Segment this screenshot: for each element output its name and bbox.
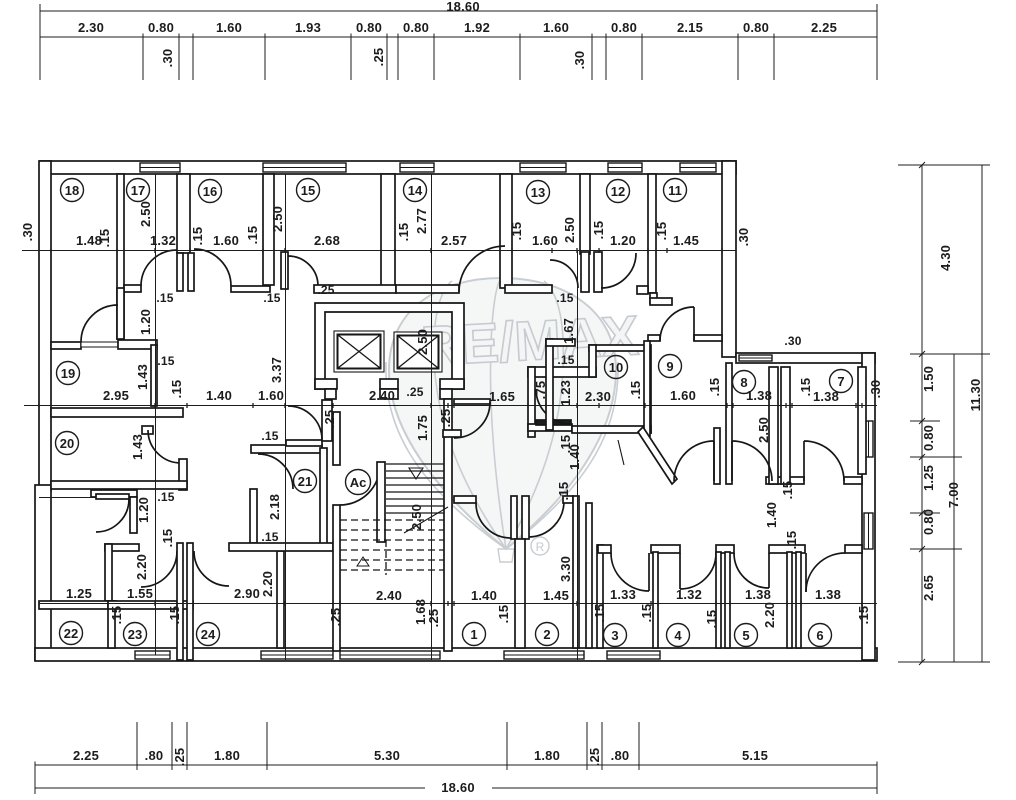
door corridor-1 arc xyxy=(674,441,714,481)
svg-text:1.60: 1.60 xyxy=(213,233,239,248)
svg-text:.80: .80 xyxy=(611,748,630,763)
svg-text:.15: .15 xyxy=(780,481,795,500)
bottom chain extension lines xyxy=(137,722,639,770)
svg-text:13: 13 xyxy=(531,185,545,200)
svg-text:2.77: 2.77 xyxy=(414,208,429,234)
stair up arrow xyxy=(357,557,369,566)
wall room5-6 double xyxy=(787,552,792,648)
balloon gores xyxy=(434,281,506,549)
svg-text:.15: .15 xyxy=(97,229,112,248)
svg-text:1.67: 1.67 xyxy=(561,318,576,344)
diagonal wall hall xyxy=(638,427,677,484)
window W9 right facade xyxy=(864,513,873,549)
svg-text:1.93: 1.93 xyxy=(295,20,321,35)
bottom dim chain line xyxy=(35,764,877,766)
svg-text:.30: .30 xyxy=(20,223,35,242)
svg-text:15: 15 xyxy=(301,183,315,198)
hall small labels xyxy=(138,291,281,544)
exterior wall right upper-section xyxy=(722,161,736,357)
svg-text:2.57: 2.57 xyxy=(441,233,467,248)
svg-text:0.80: 0.80 xyxy=(356,20,382,35)
interior vertical grid x155 xyxy=(155,174,157,655)
svg-text:3.37: 3.37 xyxy=(269,357,284,383)
svg-text:1.40: 1.40 xyxy=(764,502,779,528)
entrance sill xyxy=(340,651,440,659)
svg-text:2.95: 2.95 xyxy=(103,388,129,403)
door corridor-2 arc xyxy=(732,441,772,481)
room2 east wall double xyxy=(573,496,579,648)
elevator shaft 2 X xyxy=(398,336,438,368)
svg-text:.15: .15 xyxy=(109,606,124,625)
svg-text:5.15: 5.15 xyxy=(742,748,768,763)
svg-text:1.38: 1.38 xyxy=(746,388,772,403)
svg-text:.15: .15 xyxy=(169,380,184,399)
svg-text:.15: .15 xyxy=(261,530,278,544)
top overall dim line 18.60 xyxy=(40,10,877,12)
svg-text:2.50: 2.50 xyxy=(415,329,430,355)
room9 west wall xyxy=(644,341,650,436)
window W8 right facade xyxy=(864,421,873,457)
svg-text:.15: .15 xyxy=(707,378,722,397)
svg-text:1.38: 1.38 xyxy=(815,587,841,602)
bottom chain labels xyxy=(73,748,768,795)
door room22-zone arc xyxy=(96,499,129,532)
elevator block outer wall xyxy=(315,303,464,389)
door hall-south arc xyxy=(454,402,490,438)
exterior wall left lower xyxy=(35,485,51,660)
svg-text:0.80: 0.80 xyxy=(148,20,174,35)
svg-text:.25: .25 xyxy=(328,608,343,627)
door room14 arc xyxy=(459,246,505,292)
door room4 leaf xyxy=(679,553,681,589)
svg-text:1.80: 1.80 xyxy=(214,748,240,763)
door room22-zone leaf xyxy=(96,494,129,499)
door room1 arc xyxy=(476,503,511,538)
svg-text:0.80: 0.80 xyxy=(403,20,429,35)
right chain labels xyxy=(20,223,983,601)
interior dim row y250 xyxy=(22,250,736,252)
svg-text:18.60: 18.60 xyxy=(446,0,480,14)
bottom overall dim line 18.60 xyxy=(35,787,877,789)
svg-text:2.18: 2.18 xyxy=(267,494,282,520)
balloon envelope xyxy=(389,278,616,549)
stair west wall lower xyxy=(333,505,340,651)
svg-text:9: 9 xyxy=(666,359,673,374)
svg-text:2.40: 2.40 xyxy=(376,588,402,603)
svg-text:1.32: 1.32 xyxy=(676,587,702,602)
elevator block feet xyxy=(325,389,336,399)
wall stub hall north xyxy=(650,293,657,303)
door hall-south leaf xyxy=(454,399,490,404)
room21 south wall xyxy=(229,543,333,551)
svg-text:.15: .15 xyxy=(160,529,175,548)
svg-text:0.80: 0.80 xyxy=(921,425,936,451)
svg-text:1.45: 1.45 xyxy=(543,588,569,603)
svg-text:.15: .15 xyxy=(784,531,799,550)
niche top wall xyxy=(528,367,596,377)
interior vertical grid x285 xyxy=(285,174,287,660)
svg-text:1.50: 1.50 xyxy=(921,366,936,392)
svg-text:1.40: 1.40 xyxy=(567,444,582,470)
wall room16-15 xyxy=(263,174,274,285)
svg-text:.25: .25 xyxy=(406,385,423,399)
room21 north wall step xyxy=(286,440,322,446)
door room13 arc xyxy=(550,260,578,288)
svg-text:.15: .15 xyxy=(157,354,174,368)
niche threshold bar xyxy=(536,420,571,425)
svg-text:2.50: 2.50 xyxy=(756,417,771,443)
svg-text:14: 14 xyxy=(408,183,423,198)
room11 south wall east piece xyxy=(694,335,722,341)
svg-text:2.30: 2.30 xyxy=(78,20,104,35)
door corridor-2 leaf xyxy=(731,441,733,481)
hall pier wall xyxy=(322,400,332,441)
svg-text:1.40: 1.40 xyxy=(206,388,232,403)
svg-text:.15: .15 xyxy=(496,605,511,624)
right chain line 1 xyxy=(921,165,923,662)
svg-text:.15: .15 xyxy=(556,291,573,305)
room23 north wall xyxy=(108,601,193,609)
room22-zone north wall xyxy=(91,490,137,497)
door room24 arc xyxy=(194,551,229,586)
door room15 jamb stubs xyxy=(281,252,288,289)
svg-text:.15: .15 xyxy=(628,381,643,400)
door room16 arc xyxy=(194,249,231,286)
svg-text:.15: .15 xyxy=(396,223,411,242)
stair treads upper flight xyxy=(386,464,444,513)
room21 west wall xyxy=(250,489,257,543)
door room21 arc xyxy=(258,454,293,489)
door room17 jamb stubs xyxy=(177,253,183,291)
svg-text:2.15: 2.15 xyxy=(677,20,703,35)
bottom chain ticks xyxy=(35,762,877,769)
wall piece rooms14-13 south xyxy=(505,285,552,293)
svg-text:24: 24 xyxy=(201,627,216,642)
svg-text:1.43: 1.43 xyxy=(130,434,145,460)
svg-text:1.40: 1.40 xyxy=(471,588,497,603)
svg-text:.30: .30 xyxy=(784,334,801,348)
dim row ticks xyxy=(39,248,862,606)
door room6 leaf xyxy=(805,553,807,592)
svg-text:1.60: 1.60 xyxy=(532,233,558,248)
room10 north wall xyxy=(589,345,648,351)
interior row y603 labels xyxy=(66,490,871,628)
door hall-21 arc xyxy=(288,406,322,440)
top chain ticks xyxy=(40,34,877,41)
svg-text:.25: .25 xyxy=(587,748,602,767)
svg-text:2.50: 2.50 xyxy=(409,504,424,530)
svg-text:17: 17 xyxy=(131,183,145,198)
room21 north wall xyxy=(251,445,322,453)
svg-text:Ac: Ac xyxy=(350,475,367,490)
hall north wall piece a xyxy=(124,285,141,292)
svg-text:.15: .15 xyxy=(856,606,871,625)
interior dim row y405 xyxy=(24,405,877,407)
svg-text:2: 2 xyxy=(543,627,550,642)
svg-text:.15: .15 xyxy=(157,490,174,504)
door room20 arc xyxy=(148,430,181,463)
svg-text:.15: .15 xyxy=(261,429,278,443)
stair west wall upper xyxy=(333,412,340,465)
svg-text:18: 18 xyxy=(65,183,79,198)
svg-text:1.32: 1.32 xyxy=(150,233,176,248)
svg-text:19: 19 xyxy=(61,366,75,381)
wall room23-24 double xyxy=(177,543,183,660)
window sill room23 xyxy=(135,651,170,659)
elevator block bottom piers xyxy=(315,379,337,389)
door corridor-3 leaf xyxy=(803,441,805,481)
right chain line 2 (7.00) xyxy=(953,354,955,662)
hall north wall piece c xyxy=(314,285,396,293)
svg-text:1.20: 1.20 xyxy=(138,309,153,335)
door room11 arc xyxy=(660,307,694,341)
door niche arc xyxy=(536,389,571,424)
door room11 leaf xyxy=(693,307,695,341)
niche south wall xyxy=(528,424,572,431)
svg-text:.30: .30 xyxy=(736,228,751,247)
room20 south wall xyxy=(51,481,187,489)
svg-text:1.92: 1.92 xyxy=(464,20,490,35)
balloon basket xyxy=(498,549,514,562)
svg-text:.75: .75 xyxy=(533,381,548,400)
svg-text:1.25: 1.25 xyxy=(66,586,92,601)
center column labels xyxy=(317,283,453,627)
right chain horizontals xyxy=(898,165,990,662)
svg-text:2.50: 2.50 xyxy=(562,217,577,243)
door room3 leaf xyxy=(648,553,650,591)
corridor top wall piece a xyxy=(766,477,804,484)
interior row y250 labels xyxy=(76,201,751,248)
room11 south wall west piece xyxy=(648,335,660,341)
corridor top wall piece b xyxy=(844,477,862,484)
wall room4-5 double xyxy=(716,552,721,648)
stair flight divider xyxy=(377,462,385,542)
room7 east wall xyxy=(858,367,866,474)
top chain labels xyxy=(78,0,837,69)
hall north wall piece b xyxy=(231,286,270,292)
svg-text:1.60: 1.60 xyxy=(258,388,284,403)
svg-text:20: 20 xyxy=(60,436,74,451)
interior row y405 labels xyxy=(103,291,839,500)
svg-text:.15: .15 xyxy=(592,604,607,623)
svg-text:7.00: 7.00 xyxy=(946,482,961,508)
svg-text:3.30: 3.30 xyxy=(558,556,573,582)
door corridor-1 leaf xyxy=(713,441,715,481)
svg-text:1.55: 1.55 xyxy=(127,586,153,601)
window sill room3 xyxy=(607,651,660,659)
svg-text:22: 22 xyxy=(64,626,78,641)
rooms8-7 partition xyxy=(769,367,778,484)
svg-text:10: 10 xyxy=(609,360,623,375)
rooms1-2 jamb walls xyxy=(511,496,517,539)
room number circles xyxy=(56,179,853,647)
stair down arrow xyxy=(409,468,423,479)
room1 north wall xyxy=(454,496,476,503)
svg-text:.15: .15 xyxy=(798,378,813,397)
svg-text:.15: .15 xyxy=(591,221,606,240)
corridor bottom wall pieces xyxy=(598,545,611,553)
window W5 top (room12) xyxy=(608,163,642,172)
door vestibule arc xyxy=(141,551,177,587)
svg-text:2.90: 2.90 xyxy=(234,586,260,601)
door room15 arc xyxy=(288,256,318,286)
svg-text:1.60: 1.60 xyxy=(670,388,696,403)
wall room3-4 xyxy=(653,552,658,648)
svg-text:1.23: 1.23 xyxy=(558,380,573,406)
svg-text:.30: .30 xyxy=(868,380,883,399)
svg-text:4: 4 xyxy=(674,628,682,643)
svg-text:1.38: 1.38 xyxy=(745,587,771,602)
svg-text:1.60: 1.60 xyxy=(543,20,569,35)
exterior wall bottom xyxy=(35,648,877,661)
exterior wall right-wing top xyxy=(736,353,875,363)
svg-text:.25: .25 xyxy=(438,409,453,428)
room21 east wall xyxy=(320,448,327,544)
exterior wall left xyxy=(39,161,51,491)
window W1 top (room18) xyxy=(140,163,180,172)
wall step room12-11 foot xyxy=(637,286,648,294)
wall room12-11 xyxy=(648,174,656,293)
room22 north wall xyxy=(39,601,116,609)
window sill room24 xyxy=(261,651,333,659)
svg-text:.15: .15 xyxy=(190,227,205,246)
svg-text:.15: .15 xyxy=(639,604,654,623)
svg-text:21: 21 xyxy=(298,474,312,489)
svg-text:.15: .15 xyxy=(167,606,182,625)
svg-text:2.40: 2.40 xyxy=(369,388,395,403)
svg-text:1.20: 1.20 xyxy=(610,233,636,248)
svg-text:5.30: 5.30 xyxy=(374,748,400,763)
svg-text:1.65: 1.65 xyxy=(489,389,515,404)
door room6 arc xyxy=(806,553,845,592)
vestibule north wall xyxy=(105,544,139,551)
svg-text:11.30: 11.30 xyxy=(968,379,983,412)
wall room18-17 xyxy=(117,174,124,339)
room10 north-step wall xyxy=(546,339,575,346)
door room18 arc xyxy=(81,305,118,342)
svg-text:4.30: 4.30 xyxy=(938,245,953,271)
svg-text:.15: .15 xyxy=(557,353,574,367)
wall room17-16 xyxy=(177,174,190,253)
right chain line 3 (11.30) xyxy=(981,165,983,662)
door room3 arc xyxy=(611,553,649,591)
svg-text:.30: .30 xyxy=(572,51,587,70)
door room17 arc xyxy=(141,250,177,286)
window sill rooms1-2 xyxy=(504,651,584,659)
niche west wall xyxy=(528,367,535,437)
svg-text:23: 23 xyxy=(128,627,142,642)
svg-text:1.20: 1.20 xyxy=(136,497,151,523)
door Ac arc xyxy=(340,465,380,505)
svg-text:0.80: 0.80 xyxy=(743,20,769,35)
window W2 top (room15) xyxy=(263,163,346,172)
svg-text:.15: .15 xyxy=(654,222,669,241)
svg-text:.25: .25 xyxy=(317,283,334,297)
room2 north wall piece xyxy=(563,496,573,503)
room9 lower stub walls xyxy=(714,428,720,484)
room10 south wall xyxy=(572,426,651,433)
wall room22-23 xyxy=(108,601,115,648)
interior short line y497 xyxy=(39,497,95,499)
door room12 arc xyxy=(601,253,636,288)
room20 east end wall xyxy=(179,459,187,490)
svg-text:3: 3 xyxy=(611,628,618,643)
top chain extension lines xyxy=(40,11,877,80)
svg-text:.25: .25 xyxy=(172,748,187,767)
wall room14-13 xyxy=(500,174,512,288)
top dim chain line xyxy=(40,36,877,38)
elevator shaft 1 xyxy=(334,331,384,372)
svg-text:.30: .30 xyxy=(160,49,175,68)
interior dim row y603 xyxy=(39,603,877,605)
window W4 top (room13) xyxy=(520,163,566,172)
plan xyxy=(35,161,877,661)
svg-text:1.60: 1.60 xyxy=(216,20,242,35)
svg-text:.15: .15 xyxy=(245,226,260,245)
stair treads dashed lower flight xyxy=(340,520,444,575)
exterior wall top xyxy=(40,161,736,174)
svg-text:.15: .15 xyxy=(156,291,173,305)
door corridor-3 arc xyxy=(804,441,844,481)
exterior wall right xyxy=(862,353,875,660)
svg-text:.15: .15 xyxy=(263,291,280,305)
svg-text:16: 16 xyxy=(203,184,217,199)
vestibule west wall xyxy=(105,544,112,601)
svg-text:7: 7 xyxy=(837,374,844,389)
elevator shaft 2 xyxy=(394,332,442,372)
svg-text:2.20: 2.20 xyxy=(260,571,275,597)
window W3 top (room14) xyxy=(400,163,434,172)
svg-text:.80: .80 xyxy=(145,748,164,763)
svg-text:.25: .25 xyxy=(322,410,337,429)
svg-text:1.33: 1.33 xyxy=(610,587,636,602)
svg-text:2.30: 2.30 xyxy=(585,389,611,404)
right wing labels xyxy=(756,417,799,628)
svg-text:1.80: 1.80 xyxy=(534,748,560,763)
svg-text:2.50: 2.50 xyxy=(138,201,153,227)
stair east wall xyxy=(444,399,452,651)
svg-text:R: R xyxy=(536,540,545,554)
hall west wall row y406 xyxy=(51,408,183,417)
right chain ticks xyxy=(919,162,925,665)
door room4 arc xyxy=(680,553,716,589)
door room20 jamb xyxy=(142,426,153,434)
svg-text:1: 1 xyxy=(470,627,477,642)
svg-text:0.80: 0.80 xyxy=(921,509,936,535)
room10 west wall xyxy=(546,339,553,430)
svg-text:2.25: 2.25 xyxy=(811,20,837,35)
room19 north wall xyxy=(118,340,157,349)
room10 north-step vertical xyxy=(589,345,596,377)
svg-text:.25: .25 xyxy=(371,48,386,67)
svg-text:.15: .15 xyxy=(509,222,524,241)
door room5 leaf xyxy=(768,553,770,588)
room22-zone east wall xyxy=(130,497,137,533)
interior vertical grid x431 xyxy=(431,174,433,660)
svg-text:1.45: 1.45 xyxy=(673,233,699,248)
svg-text:2.65: 2.65 xyxy=(921,575,936,601)
room18 east wall lower xyxy=(117,288,124,339)
room19 east wall xyxy=(151,345,157,406)
wall room15-14 xyxy=(381,174,395,288)
svg-text:2.25: 2.25 xyxy=(73,748,99,763)
break slash mark xyxy=(618,440,624,465)
svg-text:0.80: 0.80 xyxy=(611,20,637,35)
door room2 arc xyxy=(529,501,564,537)
svg-text:1.25: 1.25 xyxy=(921,465,936,491)
svg-text:2.50: 2.50 xyxy=(270,206,285,232)
window W6 top (room11) xyxy=(680,163,716,172)
